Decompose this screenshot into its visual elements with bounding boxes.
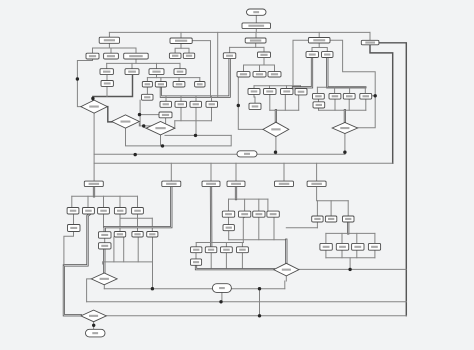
wire [243, 65, 245, 72]
wire [318, 99, 320, 102]
box k3 [253, 211, 265, 217]
junction dot [142, 124, 145, 127]
box a1 [86, 53, 99, 59]
wire [341, 233, 343, 243]
wire [199, 78, 201, 82]
junction dot [348, 268, 351, 271]
box hgp [68, 225, 81, 232]
wire [180, 107, 182, 121]
wire [283, 163, 285, 181]
diamond DA [91, 273, 117, 285]
wire [244, 199, 246, 211]
wire [274, 65, 276, 72]
box rr3 [343, 93, 355, 99]
wire [258, 199, 260, 211]
wire [210, 187, 212, 247]
box t2 [142, 82, 152, 88]
wire [113, 237, 115, 262]
diamond D1 [81, 100, 107, 113]
wire [94, 153, 237, 155]
wire [349, 258, 351, 270]
wire [372, 95, 376, 97]
wire [144, 126, 147, 128]
wire [365, 99, 367, 110]
wire [263, 47, 265, 52]
junction dot [258, 314, 261, 317]
box z1 [191, 247, 202, 253]
box q1 [160, 101, 172, 107]
wire [235, 187, 237, 200]
wire [106, 75, 108, 81]
box H3 [202, 181, 220, 187]
box nw [223, 53, 236, 59]
junction dot [258, 287, 261, 290]
box p3 [98, 208, 110, 215]
wire [379, 43, 406, 316]
box s3 [149, 69, 164, 75]
wire [119, 214, 121, 232]
box hgz [191, 259, 202, 265]
wire [316, 187, 318, 201]
wire [255, 42, 257, 48]
wire [94, 162, 393, 164]
wire [137, 214, 139, 232]
box x1 [312, 216, 323, 222]
wire [235, 163, 237, 181]
box g2 [183, 53, 194, 58]
box k2 [239, 211, 251, 217]
wire [364, 87, 366, 92]
junction dot [151, 287, 154, 290]
box gysj [170, 38, 192, 44]
wire [105, 187, 172, 232]
wire [356, 233, 358, 243]
box g1 [169, 53, 181, 58]
wire [327, 58, 365, 88]
wire [146, 78, 148, 82]
wire [221, 292, 223, 301]
box t5 [195, 82, 205, 88]
wire [217, 32, 219, 96]
box t4 [173, 82, 185, 88]
box st2 [99, 243, 112, 249]
box p2 [83, 208, 95, 215]
box m3 [281, 89, 294, 95]
wire [87, 196, 89, 207]
box s2 [125, 69, 139, 75]
junction dot [219, 300, 222, 303]
wire [131, 63, 133, 68]
box cc2 [253, 72, 266, 77]
box st1 [99, 232, 112, 239]
wire [229, 47, 231, 52]
stadium hz [237, 151, 257, 157]
wire [156, 63, 158, 68]
wire [123, 237, 125, 262]
wire [195, 253, 197, 259]
wire [325, 250, 327, 258]
wire [300, 86, 302, 89]
wire [318, 32, 320, 37]
box a2 [104, 53, 119, 59]
stadium hz3 [212, 284, 231, 293]
wire [275, 137, 277, 155]
wire [170, 163, 172, 181]
junction dot [92, 324, 95, 327]
junction dot [343, 151, 346, 154]
wire [93, 43, 110, 53]
wire [211, 107, 213, 121]
wire [225, 243, 227, 247]
wire [181, 48, 189, 53]
wire [103, 285, 105, 289]
wire [270, 109, 299, 111]
wire [161, 59, 230, 97]
wire [229, 239, 287, 241]
stadium start [247, 9, 267, 15]
wire [107, 62, 180, 64]
wire [347, 201, 349, 216]
junction dot [91, 97, 94, 100]
wire [285, 276, 287, 281]
wire [156, 75, 158, 78]
box y2 [336, 243, 348, 250]
box rs1 [313, 102, 325, 108]
wire [326, 257, 375, 259]
wire [180, 97, 182, 102]
box x3 [343, 216, 355, 222]
box m2 [264, 89, 277, 95]
wire [267, 199, 269, 211]
junction dot [237, 104, 240, 107]
box y4 [368, 243, 380, 250]
box y3 [352, 243, 364, 250]
wire [293, 40, 308, 86]
wire [93, 113, 95, 181]
diamond DB [81, 310, 106, 322]
box q3 [190, 101, 202, 107]
wire [210, 163, 212, 181]
wire [106, 86, 108, 96]
wire [374, 233, 376, 243]
junction dot [76, 77, 79, 80]
wire [230, 46, 264, 48]
box p4 [114, 208, 126, 215]
wire [330, 40, 375, 127]
wire [93, 322, 95, 330]
wire [178, 78, 180, 82]
wire [317, 86, 365, 88]
box t1 [101, 81, 113, 87]
box H6 [307, 181, 326, 187]
wire [165, 97, 167, 102]
wire [180, 32, 182, 38]
wire [103, 196, 105, 207]
box w1 [114, 232, 126, 238]
wire [334, 99, 336, 110]
box c1 [258, 52, 271, 58]
diamond D5 [332, 123, 357, 134]
wire [109, 48, 111, 53]
box k4 [267, 211, 279, 217]
wire [348, 99, 350, 110]
box w3 [147, 232, 158, 238]
wire [139, 100, 141, 126]
box x2 [325, 216, 336, 222]
wire [263, 58, 265, 65]
diamond D2 [112, 115, 140, 128]
wire [312, 43, 319, 52]
wire [210, 253, 212, 270]
box a3 [124, 53, 149, 59]
box k1 [222, 211, 234, 217]
wire [370, 45, 393, 164]
wire [229, 198, 268, 200]
wire [316, 163, 318, 181]
wire [195, 243, 197, 247]
wire [317, 200, 348, 202]
wire [71, 196, 73, 207]
box m4 [295, 89, 307, 95]
box w2 [132, 232, 143, 238]
wire [255, 32, 257, 38]
wire [139, 123, 165, 126]
wire [103, 249, 105, 273]
wire [160, 78, 162, 82]
wire [106, 315, 406, 317]
junction dot [194, 134, 197, 137]
wire [285, 240, 287, 264]
wire [165, 134, 231, 136]
box y1 [320, 243, 332, 250]
wire [196, 242, 243, 244]
wire [103, 214, 105, 227]
box cc1 [237, 72, 250, 77]
box H1 [84, 181, 103, 187]
wire [195, 107, 197, 135]
box jyb [223, 225, 234, 231]
wire [152, 237, 154, 262]
wire [175, 120, 212, 122]
diamond D6 [274, 263, 299, 276]
wire [273, 217, 275, 240]
wire [349, 87, 351, 92]
wire [318, 108, 320, 110]
wire [103, 261, 153, 263]
box h2 [322, 52, 334, 58]
wire [369, 32, 371, 40]
wire [347, 222, 349, 233]
wire [241, 243, 243, 247]
wire [93, 75, 133, 101]
box s1 [100, 69, 113, 75]
wire [319, 48, 327, 52]
wire [228, 217, 230, 224]
wire [241, 253, 243, 270]
wire [102, 262, 104, 264]
wire [87, 301, 407, 303]
box cj [245, 38, 266, 43]
wire [356, 250, 358, 258]
junction dot [374, 94, 377, 97]
wire [152, 262, 154, 289]
wire [64, 214, 90, 315]
wire [135, 59, 137, 63]
wire [137, 196, 139, 207]
diamond D3 [146, 122, 175, 135]
wire [316, 201, 318, 216]
box s4 [174, 69, 186, 75]
wire [255, 15, 257, 23]
wire [341, 250, 343, 258]
wire [146, 87, 148, 94]
wire [344, 110, 346, 122]
wire [325, 233, 327, 243]
box gj [308, 38, 330, 44]
wire [192, 41, 210, 97]
box z2 [205, 247, 217, 253]
wire [196, 265, 274, 269]
wire [316, 87, 318, 92]
box init [242, 23, 271, 29]
box jc2 [142, 94, 154, 100]
wire [228, 231, 230, 240]
wire [319, 109, 366, 111]
wire [258, 217, 260, 240]
box p1 [67, 208, 79, 215]
wire [140, 114, 159, 116]
wire [330, 201, 332, 216]
wire [253, 86, 255, 89]
box H5 [275, 181, 294, 187]
wire [175, 44, 181, 54]
wire [165, 118, 167, 126]
wire [254, 94, 255, 103]
box H2 [162, 181, 181, 187]
wire [374, 250, 376, 258]
wire [93, 187, 95, 197]
wire [344, 134, 346, 155]
box z3 [221, 247, 233, 253]
wire [275, 110, 277, 122]
wire [87, 279, 92, 302]
wire [137, 237, 139, 262]
wire [147, 77, 199, 79]
box rr1 [313, 93, 325, 99]
box q2 [175, 101, 187, 107]
wire [211, 97, 213, 102]
wire [293, 58, 312, 88]
wire [151, 218, 153, 231]
wire [231, 288, 284, 290]
wire [109, 31, 370, 33]
wire [126, 128, 232, 146]
wire [244, 64, 275, 66]
box H4 [227, 181, 245, 187]
wire [269, 94, 271, 110]
wire [286, 227, 317, 229]
wire [259, 289, 261, 316]
wire [160, 135, 162, 146]
wire [334, 87, 336, 92]
wire [299, 268, 406, 270]
wire [195, 97, 197, 102]
junction dot [134, 153, 137, 156]
wire [225, 253, 227, 270]
box hz2 [159, 112, 172, 118]
wire [298, 95, 300, 110]
box z4 [237, 247, 249, 253]
wire [104, 238, 106, 243]
box m1 [248, 89, 260, 95]
box cc3 [268, 72, 281, 77]
wire [119, 196, 121, 207]
wire [284, 94, 286, 110]
wire [77, 59, 92, 107]
wire [254, 85, 301, 87]
wire [72, 195, 138, 197]
box q4 [206, 101, 218, 107]
box t3 [155, 82, 166, 88]
wire [108, 32, 110, 37]
wire [269, 86, 271, 89]
wire [286, 86, 288, 89]
junction dot [138, 113, 141, 116]
wire [106, 63, 108, 68]
wire [257, 153, 345, 155]
box rr2 [329, 93, 341, 99]
junction dot [161, 144, 164, 147]
box cy [249, 103, 261, 109]
stadium end [86, 329, 106, 337]
junction dot [274, 151, 277, 154]
wire [228, 199, 230, 211]
box h1 [306, 52, 319, 58]
wire [109, 48, 136, 53]
wire [73, 214, 75, 225]
wire [255, 29, 257, 33]
wire [179, 63, 181, 68]
wire [120, 217, 152, 219]
wire [174, 121, 176, 128]
wire [106, 107, 112, 122]
wire [243, 217, 244, 242]
wire [326, 232, 375, 234]
wire [238, 77, 263, 129]
wire [104, 288, 212, 290]
box r1 [361, 40, 379, 45]
wire [259, 65, 261, 72]
wire [316, 222, 318, 228]
wire [284, 281, 286, 289]
diamond D4 [263, 122, 289, 136]
box p5 [132, 208, 144, 215]
box rr4 [360, 93, 372, 99]
wire [64, 232, 74, 266]
box jc [99, 37, 119, 43]
